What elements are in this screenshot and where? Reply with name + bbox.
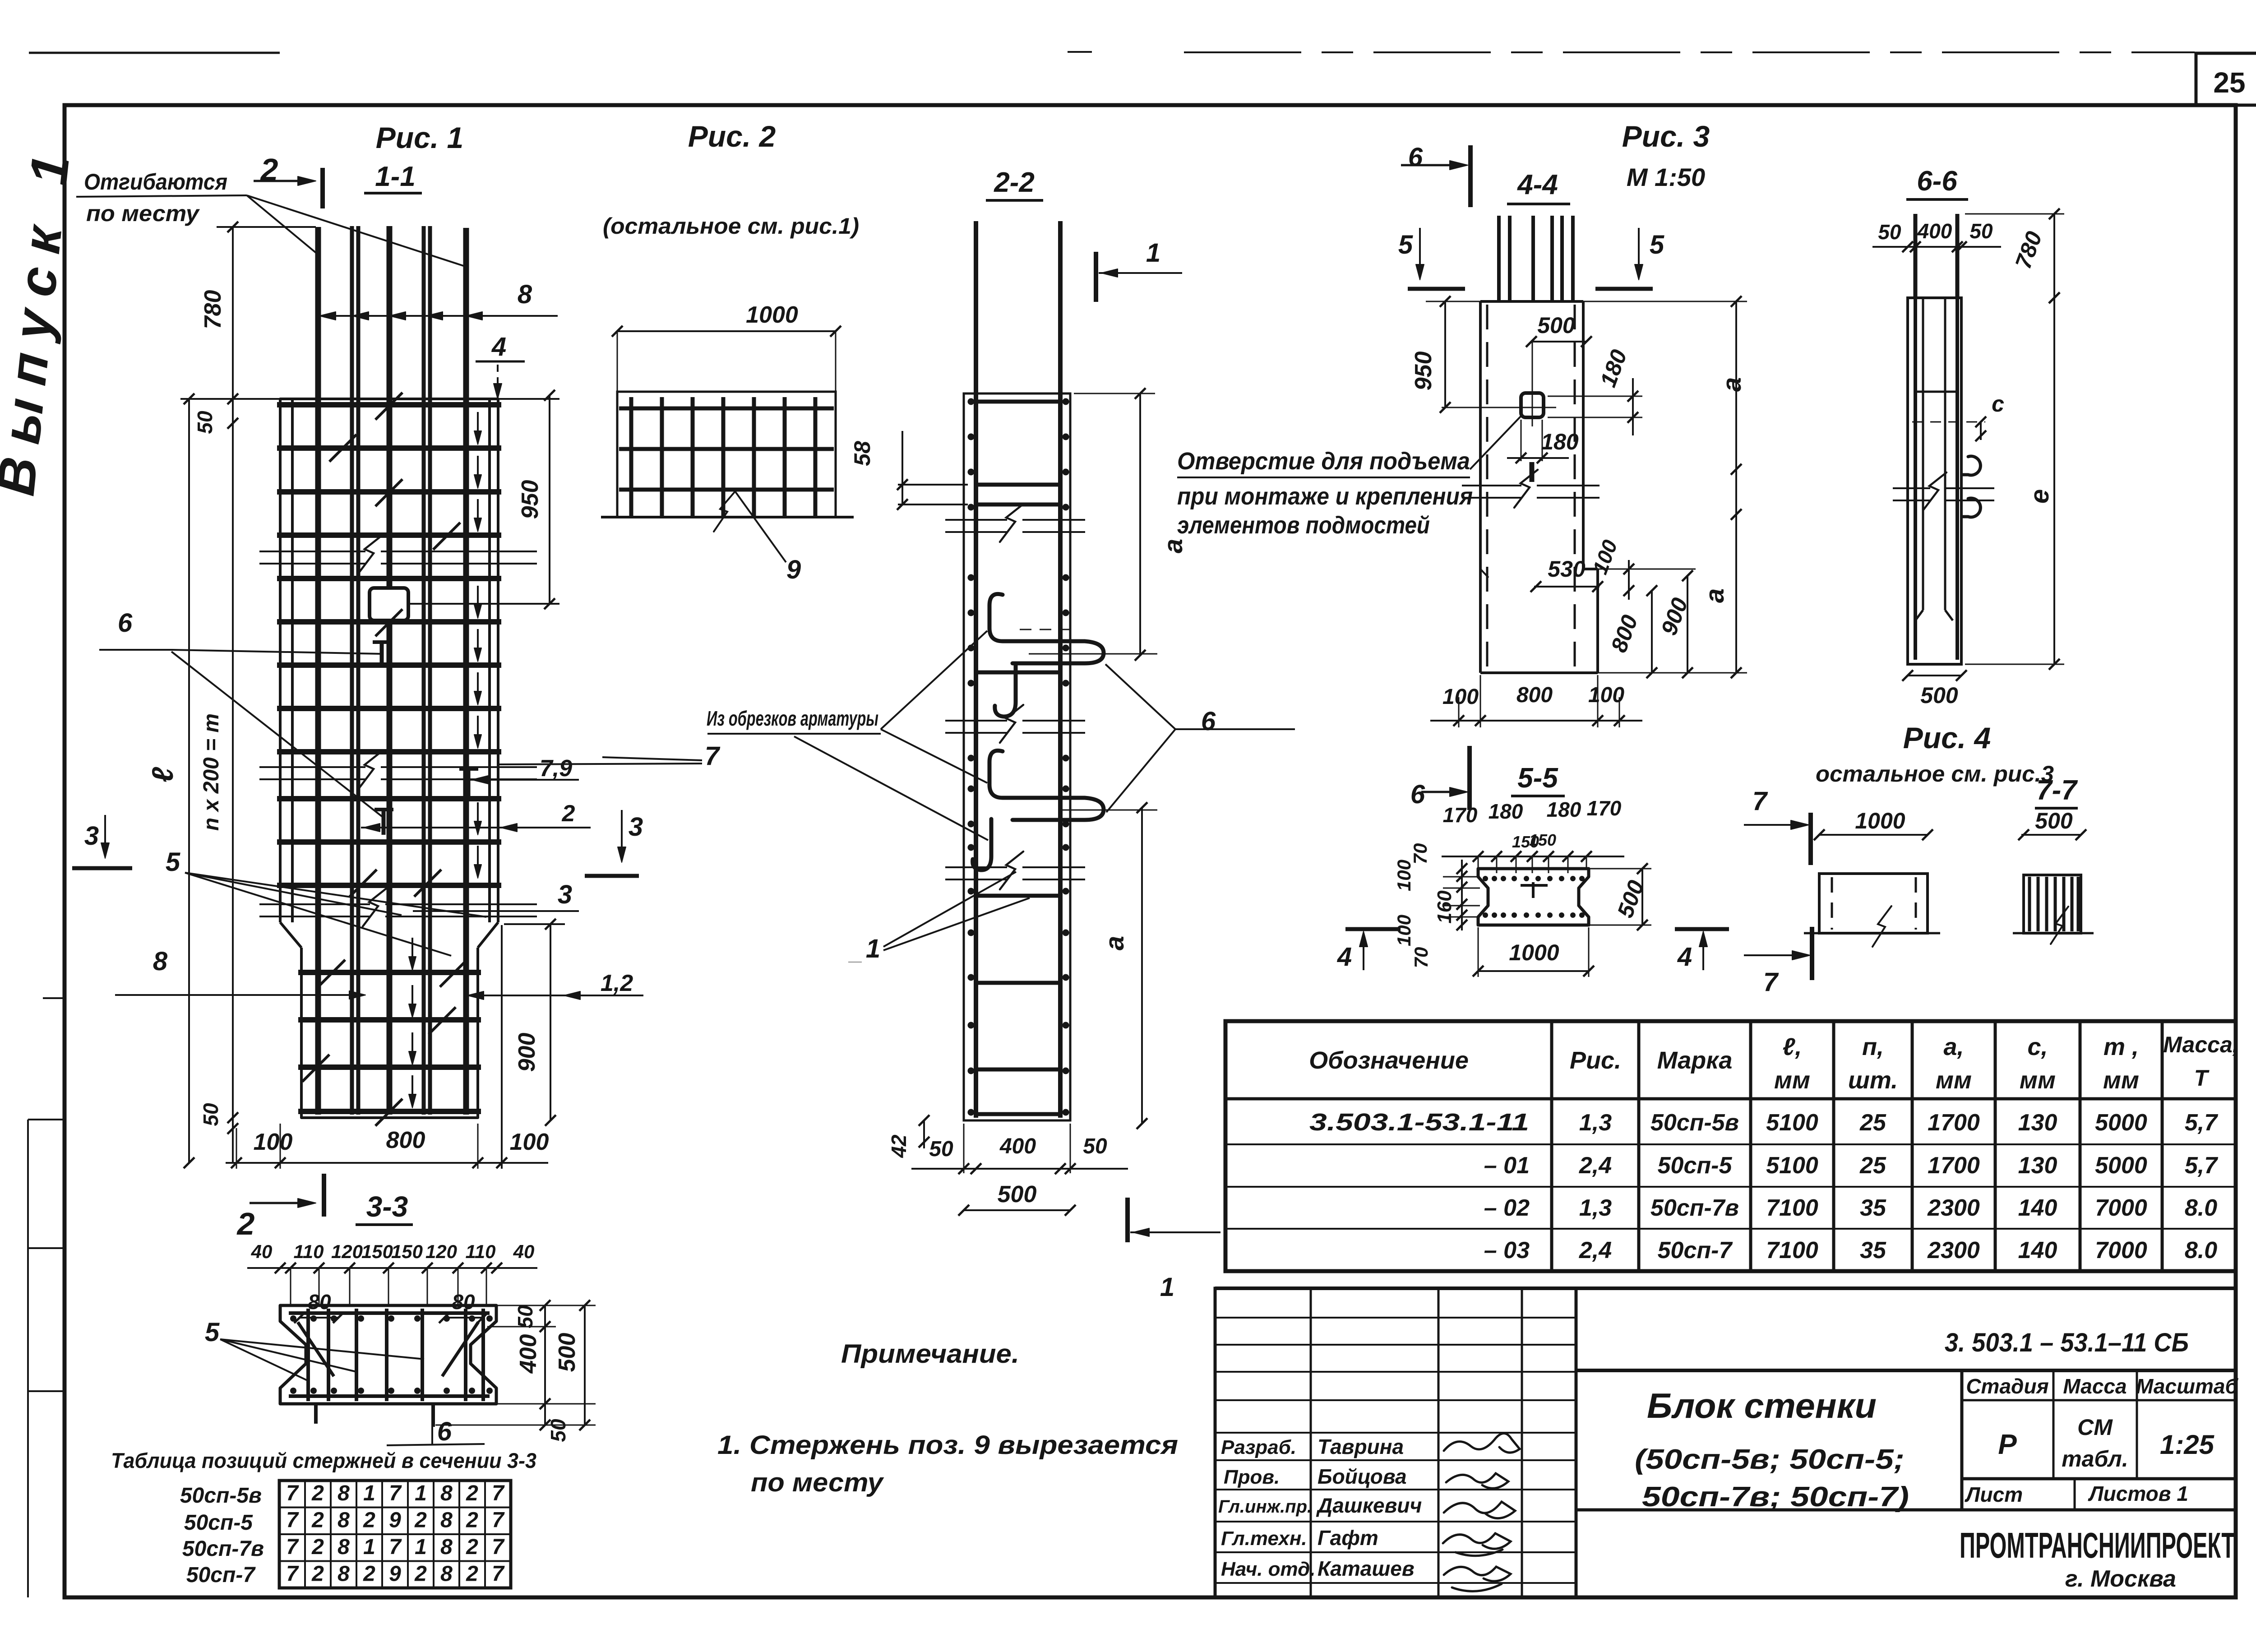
svg-text:Листов 1: Листов 1 [2088,1482,2188,1505]
fig1 break lines upper [259,551,365,552]
fig66 channel lines [1922,298,1924,610]
svg-text:6: 6 [1408,143,1423,172]
svg-text:50сп-7: 50сп-7 [186,1563,256,1587]
fig1 dim 950 line [549,395,550,604]
sec33 bottom horizontal bar [289,1394,490,1398]
sec22 note leader 1 [881,631,987,729]
svg-text:Гафт: Гафт [1318,1526,1378,1550]
fig1 extension chamfer level [504,923,565,925]
fig1 section marker 2 bottom flag [322,1174,326,1217]
svg-text:8: 8 [440,1562,453,1586]
svg-text:2: 2 [311,1509,324,1532]
svg-text:2: 2 [311,1562,324,1586]
fig2 extension left [617,331,618,397]
svg-text:6-6: 6-6 [1917,166,1957,197]
svg-text:Таблица позиций стержней в сеч: Таблица позиций стержней в сечении 3-3 [111,1448,536,1472]
svg-text:5,7: 5,7 [2185,1152,2218,1179]
fig1 section 3-3 underline [356,1223,413,1226]
sec33 top horizontal bar [289,1311,490,1315]
svg-text:(50сп-5в; 50сп-5;: (50сп-5в; 50сп-5; [1635,1444,1905,1475]
svg-text:9: 9 [389,1562,401,1586]
svg-text:1700: 1700 [1928,1110,1980,1136]
title block top line [1215,1286,2236,1290]
fig1 section marker 3 left arrow [104,815,106,855]
svg-text:1: 1 [415,1535,427,1559]
svg-text:800: 800 [386,1127,425,1153]
fig3 bottom extension line [1598,672,1747,674]
svg-text:50: 50 [546,1419,570,1442]
fig1 rebar cage outline upper [280,399,498,922]
svg-text:950: 950 [517,480,543,519]
svg-text:2: 2 [466,1535,478,1559]
svg-text:800: 800 [1516,683,1553,707]
fig66 dim 780 extension [1965,213,2064,215]
svg-text:7000: 7000 [2095,1237,2147,1263]
svg-text:50: 50 [929,1137,953,1161]
svg-text:140: 140 [2018,1237,2057,1263]
svg-text:7100: 7100 [1766,1237,1818,1263]
svg-text:5: 5 [205,1318,220,1347]
fig3 lifting hole [1521,393,1544,417]
sec55 body outline [1478,869,1589,925]
svg-text:Нач. отд.: Нач. отд. [1221,1558,1316,1580]
fig1 edge wire right [488,399,491,922]
svg-text:2: 2 [466,1509,478,1532]
fig2 dim 1000 line [617,330,836,332]
fig66 dashed level c [1912,421,1985,423]
sec33 diagonal bent bars [298,1322,334,1376]
sec55 marker 7 top flag [1808,813,1813,865]
sec55 dots top row [1483,876,1488,881]
fig66 inner rung [1915,391,1957,393]
svg-text:50сп-7: 50сп-7 [1658,1237,1733,1263]
sec55 marker 4 left arrow [1363,935,1364,970]
fig3 dim 500 line [1531,341,1586,342]
sec22 marker 1 bottom flag [1125,1198,1130,1242]
fig1 horizontal bars upper [277,402,501,407]
sec22 note leader 3 [794,736,988,840]
fig4 label 7-7 underline [2035,807,2078,810]
svg-text:Р: Р [1998,1429,2017,1460]
svg-text:c: c [1992,391,2004,416]
svg-text:Масштаб: Масштаб [2136,1374,2238,1398]
svg-text:8: 8 [440,1535,453,1559]
fig1 label 5 leaders [185,873,402,915]
sec22 label 6 right line [1175,728,1295,730]
svg-text:780: 780 [200,290,226,329]
sec33 rebar dots top row [290,1315,296,1322]
svg-text:400: 400 [1917,219,1952,243]
sec22 dim a mid extension [1029,653,1157,655]
svg-text:9: 9 [389,1509,401,1532]
sec22 hook piece 1 top hook [995,663,1016,717]
svg-text:1: 1 [415,1481,427,1505]
svg-text:4: 4 [491,332,506,361]
svg-text:100: 100 [254,1129,293,1155]
top margin line middle dash [1068,51,1092,53]
svg-text:Бойцова: Бойцова [1318,1465,1407,1488]
fig1 cage chamfer left [280,922,301,948]
sec22 outline [964,393,1070,1120]
fig4 right view body [2024,875,2081,933]
svg-text:СМ: СМ [2077,1415,2113,1440]
svg-text:по месту: по месту [751,1468,884,1497]
svg-text:70: 70 [1410,947,1432,968]
svg-text:7: 7 [492,1509,505,1532]
svg-text:2: 2 [311,1481,324,1505]
sec33 dim 500 line [584,1305,586,1425]
svg-text:500: 500 [2035,808,2073,833]
fig1 label 7 leader a [602,757,702,760]
svg-text:7: 7 [492,1562,505,1586]
svg-text:остальное см. рис.3: остальное см. рис.3 [1816,761,2054,787]
svg-text:a: a [1159,539,1188,553]
svg-text:3. 503.1 – 53.1–11 СБ: 3. 503.1 – 53.1–11 СБ [1945,1328,2189,1357]
fig1 label 2 leader [361,827,591,828]
sec22 marker 1 bottom leader [1130,1231,1220,1233]
svg-text:4: 4 [1337,942,1352,972]
fig2 mesh vertical bars [629,397,633,517]
sec33 dim 80 left [300,1317,338,1319]
svg-text:мм: мм [2103,1067,2139,1094]
fig3 dashed formwork line left [1486,305,1489,668]
fig2 wavy mark [714,491,735,532]
sec33 right extension spur [435,1425,596,1426]
svg-text:2: 2 [363,1509,375,1532]
sec33 extension lines from dim to body [290,1268,291,1306]
svg-text:элементов подмостей: элементов подмостей [1177,512,1430,539]
svg-text:50: 50 [1878,220,1901,244]
fig3 hole centerline horizontal [1509,407,1556,408]
sec33 vertical bars [306,1309,310,1401]
svg-text:3.503.1-53.1-11: 3.503.1-53.1-11 [1309,1109,1529,1136]
sec55 dim 500 right line [1641,869,1643,925]
fig3 dim 530 line [1534,586,1600,588]
svg-text:n x 200 = m: n x 200 = m [199,713,223,831]
svg-text:Марка: Марка [1657,1047,1733,1074]
svg-text:5-5: 5-5 [1517,763,1558,794]
fig3 dim 900 line [1687,576,1688,673]
svg-text:2: 2 [236,1206,255,1241]
fig4 left wavy [1872,906,1891,947]
fig3 break mark [1462,485,1521,486]
fig1 cage outline lower part [301,948,478,1118]
fig4 left ground line [1804,932,1940,935]
fig66 dim 780 line [2053,214,2055,298]
svg-text:1: 1 [1160,1273,1174,1302]
svg-text:Каташев: Каташев [1318,1557,1415,1580]
svg-text:п,: п, [1862,1033,1884,1060]
fig66 dim c line [1980,422,1982,440]
svg-text:5: 5 [166,847,180,877]
fig3 marker 5 left arrow [1419,228,1421,276]
svg-text:1000: 1000 [1509,940,1559,965]
svg-text:2: 2 [466,1481,478,1505]
left margin box divider 2 [28,1247,65,1249]
fig1 edge wire left [291,399,294,922]
svg-text:2300: 2300 [1927,1195,1980,1221]
svg-text:3: 3 [629,812,643,842]
svg-text:8: 8 [440,1509,453,1532]
svg-text:150: 150 [361,1241,393,1262]
signature squiggle 1 [1444,1433,1520,1453]
svg-text:110: 110 [294,1241,324,1262]
svg-text:120: 120 [425,1241,457,1262]
fig1 vertical bar pair no4 [422,226,426,1115]
fig66 dim 500 line [1908,675,1961,676]
svg-text:8: 8 [337,1562,350,1586]
svg-text:2: 2 [363,1562,375,1586]
svg-text:50сп-7в; 50сп-7): 50сп-7в; 50сп-7) [1642,1481,1909,1513]
signature squiggle 3 [1444,1502,1515,1518]
fig1 dim 950 bottom extension [410,603,559,605]
fig1 label 3 lower line [413,910,579,912]
svg-text:Рис. 3: Рис. 3 [1622,120,1710,153]
svg-text:130: 130 [2018,1110,2057,1136]
sec22 rungs [976,400,1060,404]
sec55 left chain ticks [1461,860,1463,930]
fig3 extension top left [1426,301,1480,302]
fig1 note underline leader [76,195,247,197]
sec22 marker 1 top flag [1094,252,1098,302]
svg-text:6: 6 [118,608,133,638]
svg-text:Примечание.: Примечание. [841,1339,1019,1369]
fig66 dim line [1872,246,2001,248]
svg-text:мм: мм [2020,1067,2056,1094]
svg-text:8: 8 [337,1535,350,1559]
sec22 marker 1 top leader [1099,272,1182,274]
svg-text:180: 180 [1547,798,1581,821]
svg-text:Разраб.: Разраб. [1221,1436,1296,1458]
svg-text:150: 150 [1529,831,1556,849]
svg-text:80: 80 [452,1290,475,1314]
svg-text:2: 2 [311,1535,324,1559]
svg-text:58: 58 [850,441,875,466]
svg-text:Отверстие для подъема: Отверстие для подъема [1177,448,1470,475]
svg-text:2: 2 [562,801,575,827]
fig3 bar below hole [1530,462,1535,482]
fig2 mesh horizontal bars [619,407,834,411]
svg-text:8: 8 [440,1481,453,1505]
fig2 ground line [601,516,854,518]
fig1 extension line top of cage [180,398,559,400]
fig4 right view bars [2028,877,2031,931]
svg-text:ℓ: ℓ [146,767,179,782]
fig1 section marker 3 right arrow [621,810,623,859]
svg-text:25: 25 [1859,1110,1886,1136]
svg-text:по месту: по месту [86,201,200,226]
fig1 vertical bar no3 middle [387,226,393,1115]
svg-text:7: 7 [1752,787,1768,816]
svg-text:500: 500 [554,1333,580,1372]
fig1 label 6 leader lower [171,652,384,818]
fig3 dashed formwork line right [1574,305,1576,668]
sec55 marker 4 right flag [1675,927,1729,931]
sec55 marker 7 top leader [1744,824,1804,826]
sec22 label underline [986,199,1043,202]
svg-text:8.0: 8.0 [2185,1237,2217,1263]
svg-text:35: 35 [1860,1237,1886,1263]
fig66 inner bars [1914,298,1917,660]
svg-text:50: 50 [193,411,217,434]
fig1 section marker 3 right flag [585,874,639,878]
fig1 dim line l total [188,399,190,1163]
svg-text:50сп-5в: 50сп-5в [1650,1110,1739,1136]
svg-text:Блок стенки: Блок стенки [1647,1386,1877,1425]
svg-text:1:25: 1:25 [2160,1430,2215,1460]
svg-text:ПРОМТРАНСНИИПРОЕКТ: ПРОМТРАНСНИИПРОЕКТ [1960,1525,2235,1565]
svg-text:400: 400 [999,1134,1036,1158]
fig3 dim 950 line [1444,301,1446,407]
fig4 right ground line [2013,932,2094,935]
svg-text:Масса: Масса [2063,1374,2127,1398]
fig1 label 1-1 underline [364,192,422,194]
svg-text:530: 530 [1548,556,1586,582]
svg-text:2: 2 [466,1562,478,1586]
sec22 note leader 2 [881,729,987,783]
svg-text:1,3: 1,3 [1579,1110,1612,1136]
fig3 extension top right [1583,301,1747,302]
svg-text:Таврина: Таврина [1318,1435,1404,1458]
fig1 short bar piece pos6 upper [380,641,384,667]
svg-text:500: 500 [998,1181,1037,1208]
fig1 label 6 underline [99,649,171,651]
fig1 extension bottom outer [501,925,503,1169]
svg-text:а,: а, [1943,1033,1964,1060]
svg-text:5000: 5000 [2095,1110,2147,1136]
svg-text:7,9: 7,9 [540,755,572,782]
sec33 bottom spurs [314,1404,318,1424]
svg-text:7: 7 [389,1535,402,1559]
svg-text:100: 100 [510,1129,549,1155]
svg-text:мм: мм [1936,1067,1972,1094]
svg-text:8.0: 8.0 [2185,1195,2217,1221]
svg-text:Обозначение: Обозначение [1309,1047,1469,1074]
svg-text:1: 1 [1146,238,1160,268]
fig1 short bar piece pos6 lower [382,809,386,835]
fig66 hook right 1 [1962,456,1980,475]
fig1 extension line bar tops [217,226,316,228]
svg-text:7: 7 [286,1509,299,1532]
svg-text:8: 8 [337,1481,350,1505]
fig4 right view dim line [2021,834,2081,836]
sec22 dim a upper line [1139,393,1141,655]
sec33 right extension mid [487,1326,556,1328]
fig1 bottom dim line [226,1162,548,1164]
svg-text:160: 160 [1433,890,1456,924]
left margin box divider 1 [28,1119,65,1120]
data table row lines [1225,1143,2236,1145]
hole note line1 underline [1177,477,1470,478]
fig3 marker 6 top leader [1401,164,1463,167]
fig3 label 4-4 underline [1507,203,1570,205]
fig3 dim 100 step line [1628,560,1630,600]
svg-text:г. Москва: г. Москва [2065,1566,2176,1592]
fig3 marker 6 bottom flag [1467,746,1472,810]
svg-text:9: 9 [786,555,801,584]
fig66 dim e extension bottom [1965,664,2064,665]
fig1 section marker 2 bottom arrow [250,1202,310,1204]
svg-text:1,3: 1,3 [1579,1195,1612,1221]
svg-text:50сп-7в: 50сп-7в [182,1537,264,1561]
svg-text:2-2: 2-2 [994,167,1035,198]
sec55 dim 1000 extensions [1478,927,1479,977]
svg-text:25: 25 [1859,1152,1886,1179]
svg-text:7100: 7100 [1766,1195,1818,1221]
fig1 lifting hole box [370,588,408,620]
svg-text:3-3: 3-3 [366,1190,408,1223]
fig3 extension 950 bottom [1442,407,1509,408]
sec55 marker 4 left flag [1345,927,1401,931]
svg-text:Рис. 4: Рис. 4 [1903,721,1991,754]
sec33 body outline [280,1305,496,1404]
fig1 vertical bar pos7 no1 [315,227,321,1115]
stadia massa masshtab verticals [1960,1370,1964,1510]
sec22 bottom extensions [963,1124,965,1173]
hole note leader [1470,416,1521,469]
fig1 label 6 leader upper [171,650,382,654]
sec22 hook piece 1 horizontal [989,750,1104,820]
signature squiggle 5 [1444,1567,1511,1591]
svg-text:т ,: т , [2103,1033,2139,1060]
fig2 extension right [835,331,837,397]
fig3 marker 6 bottom leader [1421,791,1463,793]
sec22 bar left [974,221,978,1118]
sec22 dim 58 ticks [898,484,968,486]
svg-text:6: 6 [437,1417,452,1446]
svg-text:7: 7 [389,1481,402,1505]
fig1 label 8 lower leader [115,994,361,996]
staff table outline [1215,1288,1576,1597]
fig1 horizontal bars lower [298,970,481,975]
svg-text:7: 7 [286,1562,299,1586]
fig1 label 7 leader b [499,764,702,764]
svg-text:5100: 5100 [1766,1110,1818,1136]
svg-text:130: 130 [2018,1152,2057,1179]
fig66 underline [1906,198,1968,201]
fig3 step extension [1598,569,1696,570]
sec22 label 6 leader 2 [1106,729,1175,812]
sec55 marker 4 right arrow [1702,935,1704,970]
data table column lines [1550,1021,1553,1271]
staff table name row lines [1215,1432,1576,1434]
svg-text:8: 8 [518,280,532,309]
fig4 left view dim line [1819,834,1928,836]
fig1 note leader to bar1 [247,195,316,253]
svg-text:500: 500 [1920,683,1958,708]
svg-text:1: 1 [363,1481,375,1505]
svg-text:35: 35 [1860,1195,1886,1221]
svg-text:3: 3 [84,821,99,851]
sec55 extension lines [1496,856,1498,873]
svg-text:170: 170 [1443,803,1478,827]
top margin line right dash-dot [1184,51,2195,53]
svg-text:25: 25 [2213,66,2245,99]
svg-text:Лист: Лист [1965,1483,2023,1506]
svg-text:5: 5 [1650,230,1664,259]
sec22 dim a lower line [1141,808,1143,1124]
svg-text:6: 6 [1201,707,1216,736]
sec33 label 5 leaders [220,1339,308,1381]
sec22 dim 500 line [964,1209,1070,1211]
svg-text:с,: с, [2027,1033,2048,1060]
svg-text:1000: 1000 [1855,808,1905,833]
svg-text:120: 120 [331,1241,363,1262]
svg-text:5000: 5000 [2095,1152,2147,1179]
fig1 break lines middle [259,766,365,768]
svg-text:2,4: 2,4 [1579,1237,1612,1263]
fig1 dim 8 leader [319,315,558,317]
